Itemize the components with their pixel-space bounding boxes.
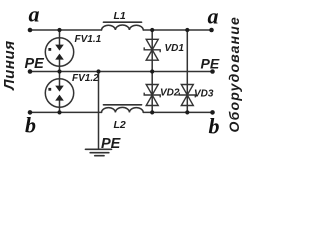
svg-text:VD1: VD1 (165, 43, 185, 54)
svg-text:FV1.2: FV1.2 (72, 73, 99, 84)
svg-text:L2: L2 (114, 119, 126, 131)
svg-text:Оборудование: Оборудование (226, 16, 242, 133)
svg-text:a: a (29, 1, 40, 26)
svg-text:L1: L1 (114, 10, 126, 22)
svg-text:a: a (208, 4, 219, 29)
svg-text:b: b (209, 113, 220, 138)
svg-text:Линия: Линия (1, 40, 18, 91)
svg-text:b: b (25, 112, 36, 137)
svg-text:PE: PE (25, 56, 46, 72)
svg-text:PE: PE (201, 56, 220, 72)
svg-text:PE: PE (101, 136, 122, 152)
svg-text:VD3: VD3 (194, 88, 214, 99)
svg-text:VD2: VD2 (160, 88, 180, 99)
svg-text:FV1.1: FV1.1 (75, 34, 102, 45)
